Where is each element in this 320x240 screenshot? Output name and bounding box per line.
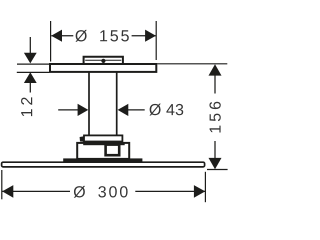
dim 155: left extension line: [50, 21, 52, 62]
dim 300: dimension line right segment: [135, 190, 205, 192]
flange plate (ceiling escutcheon): [50, 64, 156, 72]
dim 12: lower line: [29, 83, 31, 93]
dim 12: up arrow: [24, 72, 37, 83]
dim 43: label: [149, 104, 183, 116]
dim 300: right arrow: [194, 185, 205, 198]
dim 155: left arrow: [51, 30, 62, 42]
dim 156: lower line: [214, 141, 216, 159]
dim 300: right extension line: [204, 172, 206, 202]
shower disc plate: [2, 162, 205, 167]
window in housing: [106, 145, 120, 156]
dim 43: right arrow: [118, 104, 129, 116]
dim 155: right extension line: [155, 21, 157, 60]
dim 155: label: [75, 30, 128, 42]
dim 156: bottom extension line: [207, 169, 228, 171]
cap center dot: [101, 59, 105, 63]
dim 43: left tail: [58, 109, 78, 111]
dim 12: down arrow: [24, 53, 37, 64]
housing box: [77, 143, 129, 159]
dim 156: down arrow: [209, 158, 222, 169]
collar-housing joint band: [83, 142, 125, 145]
dim 155: dimension line left segment: [51, 35, 73, 37]
collar under stem: [84, 135, 122, 141]
dim 155: right arrow: [145, 30, 156, 42]
dim 300: label: [74, 186, 128, 198]
dim 12: upper extension line: [17, 63, 49, 65]
top cap on flange: [84, 57, 123, 64]
dim 156: label (rotated): [209, 102, 220, 133]
dim 12: upper line: [29, 37, 31, 53]
hub band above disc: [63, 158, 142, 162]
dim 43: right tail: [128, 109, 145, 111]
dim 156: upper line: [214, 75, 216, 94]
dim 300: dimension line left segment: [2, 190, 70, 192]
stem pipe right wall: [116, 73, 118, 136]
dim 156: up arrow: [209, 64, 222, 75]
dim 156: top extension line: [157, 63, 227, 65]
stem pipe left wall: [88, 73, 90, 136]
dim 300: left arrow: [2, 185, 13, 198]
dim 12: lower extension line: [17, 71, 50, 73]
dim 155: dimension line right segment: [132, 35, 156, 37]
dim 43: left arrow: [78, 104, 89, 116]
small lever wedge left of collar: [80, 136, 85, 142]
dim 12: label (rotated): [21, 97, 32, 116]
dim 300: left extension line: [1, 170, 3, 199]
